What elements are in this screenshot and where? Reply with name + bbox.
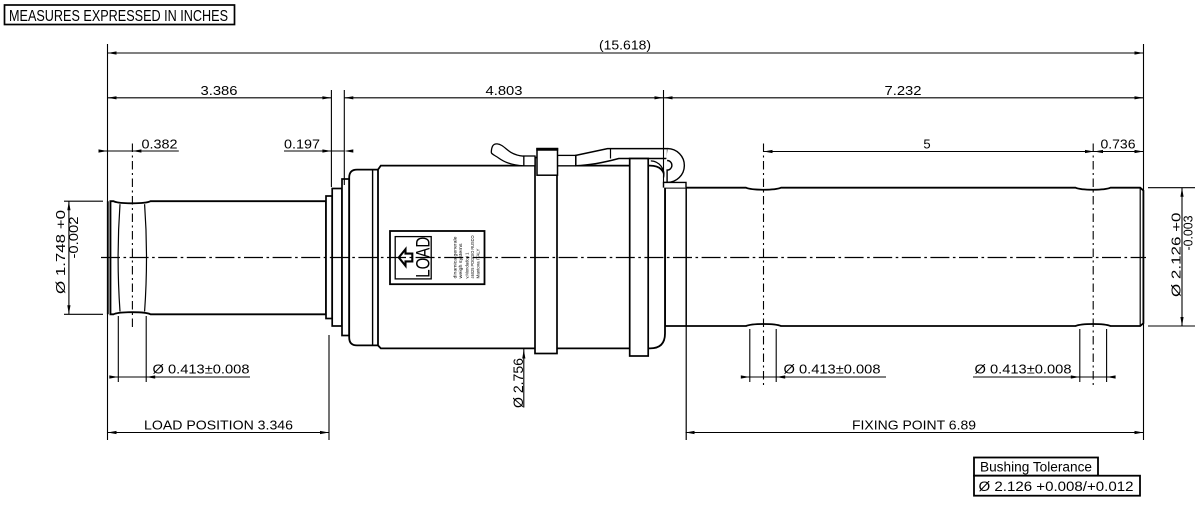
- dia 2.126 extension ticks: [1148, 188, 1195, 326]
- bushing tolerance value text: [979, 479, 1134, 494]
- right shaft (dia 2.126) outline with groove dips: [665, 188, 1143, 326]
- dimension 7.232 text: [885, 83, 922, 98]
- svg-text:Ø 2.126 +0.008/+0.012: Ø 2.126 +0.008/+0.012: [979, 479, 1134, 494]
- label small text line 4: [470, 235, 475, 278]
- svg-text:Ø 0.413±0.008: Ø 0.413±0.008: [975, 362, 1072, 377]
- svg-text:MEASURES EXPRESSED IN INCHES: MEASURES EXPRESSED IN INCHES: [9, 8, 228, 25]
- dimension 0.382 line: [99, 149, 179, 152]
- bushing tolerance title text: [980, 459, 1092, 474]
- measures note box: [5, 5, 235, 25]
- svg-text:Ø 1.748 +0: Ø 1.748 +0: [54, 210, 68, 294]
- extension line left end (x=107.5): [107, 44, 109, 440]
- vertical centerline right groove 1: [763, 144, 765, 386]
- dimension 0.736 line: [1094, 150, 1144, 153]
- svg-text:-0.002: -0.002: [67, 216, 81, 258]
- dimension dia 2.126 text line 2: [1182, 215, 1196, 250]
- svg-text:3.386: 3.386: [201, 83, 238, 98]
- clamp band 1 left wing: [524, 156, 535, 166]
- svg-text:0.382: 0.382: [142, 136, 178, 151]
- dimension dia 0.413 middle line: [741, 375, 886, 378]
- svg-text:0.736: 0.736: [1101, 137, 1136, 152]
- svg-text:Bushing Tolerance: Bushing Tolerance: [980, 459, 1092, 474]
- crosshole right edge line: [145, 204, 147, 311]
- step washer 1: [326, 196, 332, 319]
- step washer 3: [342, 179, 349, 336]
- main body (dia 2.756) outline: [378, 166, 665, 349]
- dimension dia 0.413 left line: [109, 375, 250, 378]
- dimension 0.382 text: [142, 136, 178, 151]
- dimension dia 0.413 right line: [973, 375, 1116, 378]
- clamp band 1: [535, 158, 557, 354]
- crosshole left edge line: [118, 204, 120, 311]
- dimension (15.618) text: [599, 38, 651, 53]
- dimension dia 2.756 leader: [522, 349, 525, 408]
- svg-text:5: 5: [923, 137, 930, 152]
- svg-text:Ø 2.756: Ø 2.756: [511, 358, 526, 408]
- label LOAD text (rotated): [413, 237, 435, 278]
- dia 1.748 extension ticks: [64, 201, 103, 314]
- dimension dia 0.413 left text: [153, 362, 250, 377]
- clamp band 1 right wing: [557, 155, 576, 165]
- lever right swoosh and bar: [576, 149, 668, 166]
- measures note text: [9, 8, 228, 25]
- svg-text:FIXING POINT 6.89: FIXING POINT 6.89: [852, 417, 976, 432]
- clamp screw block: [537, 149, 558, 176]
- svg-text:(15.618): (15.618): [599, 38, 651, 53]
- crosshole edge extension x=118.3: [117, 316, 119, 382]
- svg-text:4.803: 4.803: [486, 83, 523, 98]
- svg-text:LOAD POSITION 3.346: LOAD POSITION 3.346: [144, 417, 293, 432]
- dimension dia 0.413 right text: [975, 362, 1072, 377]
- dimension dia 2.756 text (rotated): [511, 358, 526, 408]
- svg-text:Mantova ITALY: Mantova ITALY: [476, 249, 481, 279]
- dimension 3.386 text: [201, 83, 238, 98]
- dimension load position line: [108, 431, 330, 434]
- extension line x=663.5: [663, 90, 665, 188]
- dimension 0.736 text: [1101, 137, 1136, 152]
- clamp screw block bold top edge: [536, 148, 558, 151]
- body left cap piece: [349, 170, 380, 346]
- dimension 3.386 line: [108, 96, 332, 99]
- lever left curved blade: [491, 144, 524, 166]
- lever bar seam: [610, 149, 612, 159]
- svg-text:Ø 0.413±0.008: Ø 0.413±0.008: [153, 362, 250, 377]
- left shaft end chamfer line: [110, 201, 112, 314]
- groove edge extension x=776.2: [775, 329, 777, 382]
- groove edge extension x=1106.6: [1106, 329, 1108, 382]
- dimension 4.803 text: [486, 83, 523, 98]
- dimension fixing point text: [852, 417, 976, 432]
- label small text line 5: [476, 249, 481, 279]
- svg-text:0.197: 0.197: [284, 136, 320, 151]
- dimension dia 1.748 text line 2: [67, 216, 81, 258]
- dimension 7.232 line: [664, 96, 1144, 99]
- groove edge extension x=749.8: [749, 329, 751, 382]
- left shaft end face line: [107, 201, 109, 314]
- hook bottom plate: [664, 182, 687, 187]
- svg-text:weigh systems: weigh systems: [458, 243, 463, 279]
- svg-text:v.Mondadori 1: v.Mondadori 1: [465, 252, 470, 278]
- label small text line 3: [465, 252, 470, 278]
- groove edge extension x=1079.8: [1079, 329, 1081, 382]
- step washer 2: [332, 189, 342, 327]
- label outer rectangle: [390, 231, 485, 284]
- svg-text:Ø 0.413±0.008: Ø 0.413±0.008: [784, 362, 881, 377]
- extension line right end (x=1143.5): [1143, 44, 1145, 440]
- bushing tolerance box value: [974, 476, 1140, 496]
- right shaft end chamfer line: [1139, 188, 1141, 326]
- svg-text:46025 POGGIO RUSCO: 46025 POGGIO RUSCO: [470, 235, 475, 278]
- left shaft (dia 1.748) outline with crosshole surface dips: [110, 201, 326, 314]
- dimension dia 2.126 text line 1: [1170, 212, 1184, 297]
- fixing point step line: [685, 188, 687, 326]
- label block arrow icon: [399, 249, 413, 266]
- clamp band 2: [630, 159, 649, 357]
- vertical centerline left crosshole: [131, 144, 133, 331]
- dimension 0.197 text: [284, 136, 320, 151]
- body top-right corner curve under hook: [651, 161, 664, 178]
- svg-text:7.232: 7.232: [885, 83, 922, 98]
- dimension dia 1.748 text line 1: [54, 210, 68, 294]
- hook inner half-circle: [667, 161, 672, 183]
- hook outer arc: [664, 149, 685, 183]
- crosshole edge extension x=146.2: [145, 316, 147, 382]
- dimension 5 text: [923, 137, 930, 152]
- extension line load position right (x=329): [328, 335, 330, 440]
- extension line x=331.4: [330, 90, 332, 187]
- bushing tolerance box title: [974, 458, 1098, 476]
- dimension dia 1.748 line: [67, 201, 70, 314]
- label small text line 2: [458, 243, 463, 279]
- label small text line 1: [453, 236, 458, 278]
- extension line x=344.3: [343, 90, 345, 185]
- dimension fixing point line: [686, 431, 1144, 434]
- svg-text:-0.003: -0.003: [1182, 215, 1196, 250]
- dimension 4.803 line: [344, 96, 663, 99]
- dimension 5 line: [764, 150, 1095, 153]
- dimension load position text: [144, 417, 293, 432]
- label inner rectangle: [395, 237, 431, 279]
- main horizontal centerline: [101, 257, 1146, 259]
- cap-body seam line: [372, 170, 374, 345]
- dimension dia 0.413 middle text: [784, 362, 881, 377]
- dimension dia 2.126 line: [1180, 188, 1183, 326]
- dimension (15.618) line: [108, 51, 1144, 54]
- dimension 0.197 line: [284, 149, 353, 152]
- vertical centerline right groove 2: [1092, 144, 1094, 386]
- extension line fixing point left (x=686): [685, 326, 687, 440]
